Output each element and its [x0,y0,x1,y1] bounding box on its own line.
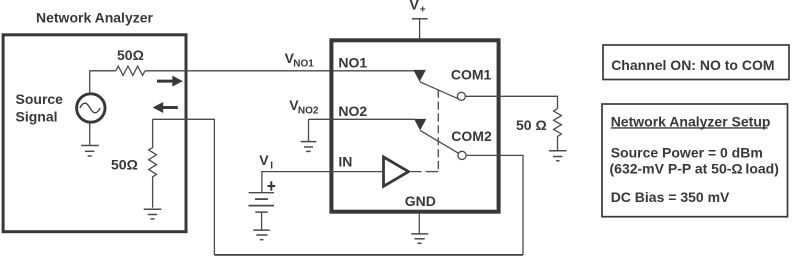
switch SW1 pole triangle [413,70,426,82]
label 50 ohm R1 [117,47,144,63]
svg-text:Source Power = 0 dBm: Source Power = 0 dBm [611,145,763,161]
wire COM2 return [466,155,523,255]
switch SW2 throw arm [420,130,458,153]
svg-text:Network Analyzer: Network Analyzer [36,9,154,25]
note box network analyzer setup [602,104,788,217]
switch SW1 throw arm [420,82,459,99]
label VNO2 [289,97,319,117]
ground battery [253,230,270,240]
source V1 sine generator [77,94,105,122]
resistor R1 50 ohm series [116,66,145,75]
buffer driver U1 [384,157,409,186]
svg-text:V: V [410,0,420,13]
wire source to resistor [90,71,116,94]
svg-text:+: + [420,4,426,15]
wire NO1 internal [333,70,414,72]
ground R3 [549,151,567,161]
svg-text:Signal: Signal [16,108,58,124]
switch SW2 pole triangle [414,119,426,130]
label NO2 pin [338,103,367,119]
wire bottom return [214,254,523,256]
label IN pin [338,153,352,169]
ground source signal [81,122,99,156]
wire NO2 internal [333,118,415,120]
svg-text:GND: GND [405,193,436,209]
svg-text:50Ω: 50Ω [111,156,138,172]
V+ power rail bar [412,18,428,20]
svg-text:V: V [259,152,269,168]
svg-text:Source: Source [16,91,64,107]
wire COM1 to load [465,96,557,108]
svg-text:COM2: COM2 [451,128,492,144]
driver dashed link [411,90,438,172]
ground R2 [144,209,162,219]
ground GND pin [411,214,428,244]
wire VI to IN pin [262,172,333,193]
switch IC box [331,40,498,211]
switch SW1 COM1 contact circle [457,92,465,100]
svg-text:NO2: NO2 [338,103,367,119]
svg-text:DC Bias = 350 mV: DC Bias = 350 mV [611,189,730,205]
label 50 ohm R3 [516,117,547,133]
battery V2 DC bias plus sign [268,181,276,190]
label V+ supply [410,0,426,15]
svg-text:NO2: NO2 [298,106,319,117]
ground NO2 stub [301,119,317,151]
wire R1 to NO1 pin [145,70,333,72]
arrow right signal direction [157,76,183,87]
label 50 ohm R2 [111,156,138,172]
note box channel on [603,45,789,80]
label COM2 pin [451,128,492,144]
svg-text:Channel ON: NO to COM: Channel ON: NO to COM [611,57,774,73]
wire IN internal [333,171,384,173]
label GND pin [405,193,436,209]
resistor R3 50 ohm load [554,109,562,152]
resistor R2 50 ohm termination [149,119,157,208]
switch SW2 COM2 contact circle [458,151,466,159]
label VNO1 [285,50,315,70]
svg-text:NO1: NO1 [338,54,367,70]
wire return top segment [153,119,215,255]
svg-text:50 Ω: 50 Ω [516,117,547,133]
label Source Signal [16,91,64,125]
svg-text:(632-mV P-P at 50-Ω load): (632-mV P-P at 50-Ω load) [610,160,779,176]
wire V+ to box [419,19,421,40]
svg-text:50Ω: 50Ω [117,47,144,63]
svg-text:IN: IN [338,153,352,169]
svg-text:NO1: NO1 [293,59,314,70]
label COM1 pin [451,67,492,83]
svg-text:I: I [270,160,273,171]
network analyzer box [3,35,186,232]
label VI [259,152,273,172]
wire NO2 external stub [309,118,334,120]
label Network Analyzer title [36,9,154,25]
svg-text:COM1: COM1 [451,67,492,83]
label NO1 pin [338,54,367,70]
arrow left return direction [153,102,178,113]
battery V2 DC bias plates [249,193,275,230]
